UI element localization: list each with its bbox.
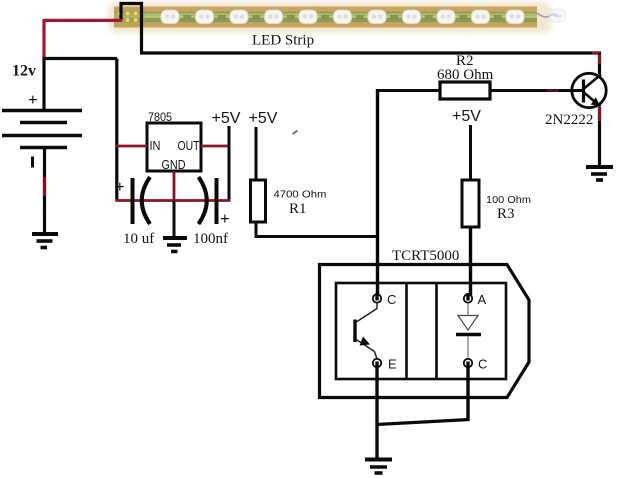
LED strip LEDs <box>161 10 524 24</box>
wire: R3 top <box>469 125 472 181</box>
svg-text:100nf: 100nf <box>193 231 228 247</box>
wire: loop vertical down through strip <box>140 2 143 53</box>
wire: OUT to +5V node (red) <box>201 145 230 148</box>
pin A (IR LED anode) <box>464 294 472 302</box>
svg-text:A: A <box>478 292 487 307</box>
svg-text:+: + <box>115 177 125 196</box>
svg-text:C: C <box>387 292 396 307</box>
wire: cathode drop <box>466 367 469 421</box>
ground (sensor) <box>365 460 392 474</box>
phototransistor symbol <box>355 303 377 359</box>
svg-text:7805: 7805 <box>148 112 172 124</box>
capacitor C1 10uf <box>133 177 151 224</box>
wire: R3 bottom to TCRT A <box>469 227 472 295</box>
wire: IN feed (red) <box>116 145 147 148</box>
wire: loop top horizontal <box>120 2 144 5</box>
svg-text:12v: 12v <box>12 63 36 80</box>
wire: E pin to ground <box>375 367 378 458</box>
svg-text:+5V: +5V <box>212 110 241 127</box>
svg-text:10 uf: 10 uf <box>123 231 154 247</box>
wire: R2 to transistor base <box>490 89 584 92</box>
svg-text:C: C <box>478 357 487 372</box>
TCRT5000 package outline <box>320 265 530 398</box>
svg-text:OUT: OUT <box>178 139 200 153</box>
wire: red feed from battery to strip <box>44 19 122 59</box>
wire: capacitor rail (red) <box>116 199 231 202</box>
regulator U1 7805 <box>147 123 201 171</box>
LED strip body <box>108 2 552 33</box>
wire: base rail left of R2 <box>378 89 442 92</box>
wire: +5V node vertical <box>228 126 231 201</box>
battery B1 12v <box>2 111 82 148</box>
wire: red segment at top-right corner <box>592 51 600 54</box>
wire: collector drop (upper part red) <box>598 53 601 74</box>
resistor R3 body <box>462 180 479 227</box>
resistor R2 body <box>440 82 490 99</box>
resistor R1 body <box>251 180 266 222</box>
wire: strip pad stub (vertical into strip) <box>119 2 122 20</box>
svg-text:2N2222: 2N2222 <box>545 112 593 128</box>
wire: long top rail to transistor collector <box>140 51 601 54</box>
battery minus sign <box>31 157 34 168</box>
wire: cathode to emitter net <box>376 420 470 425</box>
pin E (phototransistor emitter) <box>373 359 381 367</box>
wire: R1 bottom to node <box>255 222 380 238</box>
IR LED symbol <box>456 303 481 359</box>
TCRT5000 inner frame <box>336 283 506 379</box>
svg-text:+5V: +5V <box>249 110 278 127</box>
svg-text:+5V: +5V <box>452 108 481 125</box>
stray pen mark <box>293 131 298 135</box>
pin C (IR LED cathode) <box>464 359 472 367</box>
wire: R1 top <box>255 127 258 181</box>
svg-text:R1: R1 <box>289 201 307 217</box>
wire: GND pin drop (red then black) <box>173 171 176 237</box>
wire: emitter drop (red at top) <box>598 107 601 166</box>
transistor Q1 2N2222 <box>572 73 606 107</box>
svg-text:+: + <box>28 90 38 109</box>
ground (emitter) <box>586 167 613 180</box>
svg-text:LED Strip: LED Strip <box>252 33 314 49</box>
svg-text:+: + <box>220 209 230 228</box>
ground (regulator) <box>163 238 187 252</box>
svg-text:100 Ohm: 100 Ohm <box>486 194 531 206</box>
svg-text:R3: R3 <box>497 206 515 222</box>
svg-text:E: E <box>388 357 397 372</box>
svg-text:TCRT5000: TCRT5000 <box>392 248 459 264</box>
ground (battery) <box>32 234 58 248</box>
LED strip solder pads <box>114 8 145 26</box>
capacitor C2 100nf <box>199 177 217 224</box>
svg-text:IN: IN <box>150 139 161 153</box>
wire: battery negative lead (with red trace) <box>43 147 46 233</box>
wire: 12v junction to regulator column <box>43 59 118 202</box>
LED strip end wire tail <box>537 9 566 22</box>
svg-text:GND: GND <box>162 158 186 172</box>
pin C (phototransistor collector) <box>373 294 381 302</box>
wire: collector column to TCRT C <box>376 89 379 295</box>
svg-text:4700 Ohm: 4700 Ohm <box>274 189 327 201</box>
